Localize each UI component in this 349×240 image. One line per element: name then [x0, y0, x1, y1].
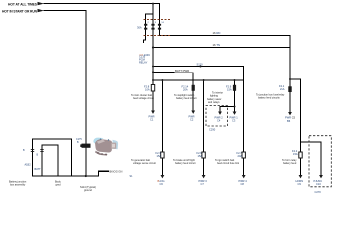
- junction dot ground bus: [85, 175, 87, 177]
- svg-text:15A: 15A: [157, 154, 162, 158]
- svg-text:16 TN: 16 TN: [213, 43, 221, 47]
- junction dot B3 x203: [203, 79, 205, 81]
- junction dot B3 x234: [234, 79, 236, 81]
- left junction box outer: [33, 139, 72, 176]
- arrow bottom x203: [202, 175, 206, 178]
- svg-text:A1B2: A1B2: [25, 164, 32, 167]
- svg-text:BK/OG GN: BK/OG GN: [110, 169, 123, 173]
- svg-text:RELAY: RELAY: [139, 61, 148, 65]
- svg-text:C4: C4: [217, 119, 221, 123]
- fusible link mid x193: [192, 85, 195, 91]
- svg-text:C290: C290: [209, 127, 216, 131]
- svg-text:16 RD: 16 RD: [213, 31, 221, 35]
- wire hot-at-all-times horizontal: [44, 3, 160, 5]
- svg-text:battery feed circuit: battery feed circuit: [175, 162, 196, 165]
- svg-text:2xA: 2xA: [280, 87, 285, 91]
- svg-text:C10: C10: [316, 182, 321, 186]
- svg-text:and relays: and relays: [208, 101, 220, 104]
- relay pictorial: [93, 138, 118, 156]
- fusible link x290: [288, 86, 291, 92]
- svg-text:grnd: grnd: [56, 183, 62, 186]
- svg-text:10A: 10A: [145, 87, 150, 91]
- fuse F1 column: [145, 20, 147, 36]
- fuse mid F2.8 (hollow): [151, 85, 154, 92]
- svg-text:20A: 20A: [238, 154, 243, 158]
- junction dot x290 jog: [289, 78, 291, 80]
- arrow mid x193: [191, 111, 195, 114]
- fuse panel dashed rail bottom: [144, 35, 172, 37]
- wire right vertical x=290: [289, 36, 291, 113]
- wire drop at x=160 into fuse box: [159, 4, 161, 20]
- svg-text:C9: C9: [298, 182, 302, 186]
- ground bus bottom: [33, 171, 109, 176]
- arrowhead label1: [38, 2, 45, 5]
- column x=193.2: [192, 72, 194, 110]
- svg-text:HOT AT ALL TIMES: HOT AT ALL TIMES: [8, 3, 38, 7]
- arrow x234: [233, 112, 237, 115]
- svg-text:box assembly: box assembly: [10, 183, 26, 186]
- svg-text:15A: 15A: [198, 154, 203, 158]
- svg-text:C6: C6: [160, 182, 164, 186]
- bus B2: [153, 71, 193, 73]
- fuse F1 exit stub: [144, 36, 146, 43]
- fuse bottom x203: [202, 152, 205, 158]
- svg-text:ground: ground: [84, 189, 92, 192]
- arrow mid x153: [151, 111, 155, 114]
- fuse F2 element: [151, 24, 154, 30]
- svg-text:S120: S120: [197, 63, 204, 67]
- svg-text:C270: C270: [315, 190, 322, 194]
- arrow box x220: [218, 112, 222, 115]
- fuse F2 column x=153: [152, 14, 154, 111]
- wire jog x=300.5 to x=321: [301, 142, 322, 175]
- svg-text:C8: C8: [241, 182, 245, 186]
- svg-text:C7: C7: [201, 182, 205, 186]
- svg-text:BATT: BATT: [35, 168, 42, 171]
- fusible link mid x234: [233, 85, 236, 91]
- wire jog to x=300.5: [290, 79, 301, 152]
- arrow bottom x162: [161, 175, 165, 178]
- svg-text:C3: C3: [232, 119, 236, 123]
- wire B to right y=47.5: [153, 47, 290, 49]
- svg-text:feed voltage circuit: feed voltage circuit: [133, 97, 154, 100]
- splice dot on B1: [200, 66, 202, 68]
- svg-text:15A: 15A: [227, 87, 232, 91]
- bus B3: [153, 79, 244, 81]
- svg-text:C1: C1: [150, 117, 154, 121]
- bus right vertical x=243.7: [243, 67, 245, 153]
- column x=234.5: [234, 80, 236, 112]
- arrow bottom x300: [299, 175, 303, 178]
- fuse F3 column x=159.5: [159, 20, 161, 36]
- bus B1: [153, 66, 244, 68]
- junction dot wire1/x153: [152, 3, 154, 5]
- svg-text:20A: 20A: [183, 87, 188, 91]
- column x=243.7 lower: [243, 158, 245, 175]
- arrow bottom x321: [319, 175, 323, 178]
- relay connector C175: [82, 144, 91, 148]
- fuse bottom x300: [299, 152, 302, 158]
- svg-text:15A: 15A: [293, 152, 298, 156]
- column x=162.4: [161, 80, 163, 152]
- wire long vertical x=86: [85, 11, 87, 176]
- arrowhead label2: [38, 9, 45, 12]
- svg-text:voltage sense circuit: voltage sense circuit: [133, 162, 156, 165]
- junction dot x153 B3: [152, 79, 154, 81]
- svg-text:BATT PWR: BATT PWR: [175, 69, 189, 73]
- connector box dashed center: [206, 106, 228, 126]
- svg-text:battery feed circuit: battery feed circuit: [176, 97, 197, 100]
- svg-text:30A: 30A: [137, 26, 142, 30]
- wire jog into connector box: [220, 107, 235, 112]
- arrow bottom x243: [242, 175, 246, 178]
- svg-text:C2: C2: [190, 117, 194, 121]
- svg-text:HOT IN START OR RUN: HOT IN START OR RUN: [2, 10, 38, 14]
- junction dot jog x234: [234, 106, 236, 108]
- column x=203.6 lower: [203, 158, 205, 175]
- arrow x290 pcm: [288, 112, 292, 115]
- column x=300.5 lower: [300, 158, 302, 175]
- junction dot x153 B2: [152, 71, 154, 73]
- fuse panel dashed rail top: [144, 19, 172, 21]
- svg-text:feed circuit fuse link: feed circuit fuse link: [217, 162, 240, 165]
- fuse bottom x162: [161, 152, 164, 158]
- battery marks left box: [31, 149, 44, 151]
- svg-text:battery feed circuits: battery feed circuits: [258, 97, 280, 100]
- label batt pwr on B2: [175, 69, 194, 73]
- fuse F1 element: [144, 24, 147, 30]
- svg-text:battery feed: battery feed: [283, 162, 297, 165]
- wire A to right y=35.5: [160, 35, 291, 37]
- junction dot x153 B1: [152, 66, 154, 68]
- junction dot B3 x162: [161, 79, 163, 81]
- left junction box inner: [42, 145, 58, 176]
- column x=162.4 lower: [161, 158, 163, 175]
- wire jog x=153 to x=146: [146, 4, 153, 20]
- fuse F3 element: [158, 24, 161, 30]
- wire hot-in-run horizontal: [44, 10, 86, 12]
- junction dot x153/wireB: [152, 46, 154, 48]
- column x=203.6: [203, 80, 205, 152]
- fuse bottom x243: [242, 152, 245, 158]
- svg-text:B6: B6: [287, 119, 291, 123]
- connector box dashed bottom right: [309, 136, 331, 187]
